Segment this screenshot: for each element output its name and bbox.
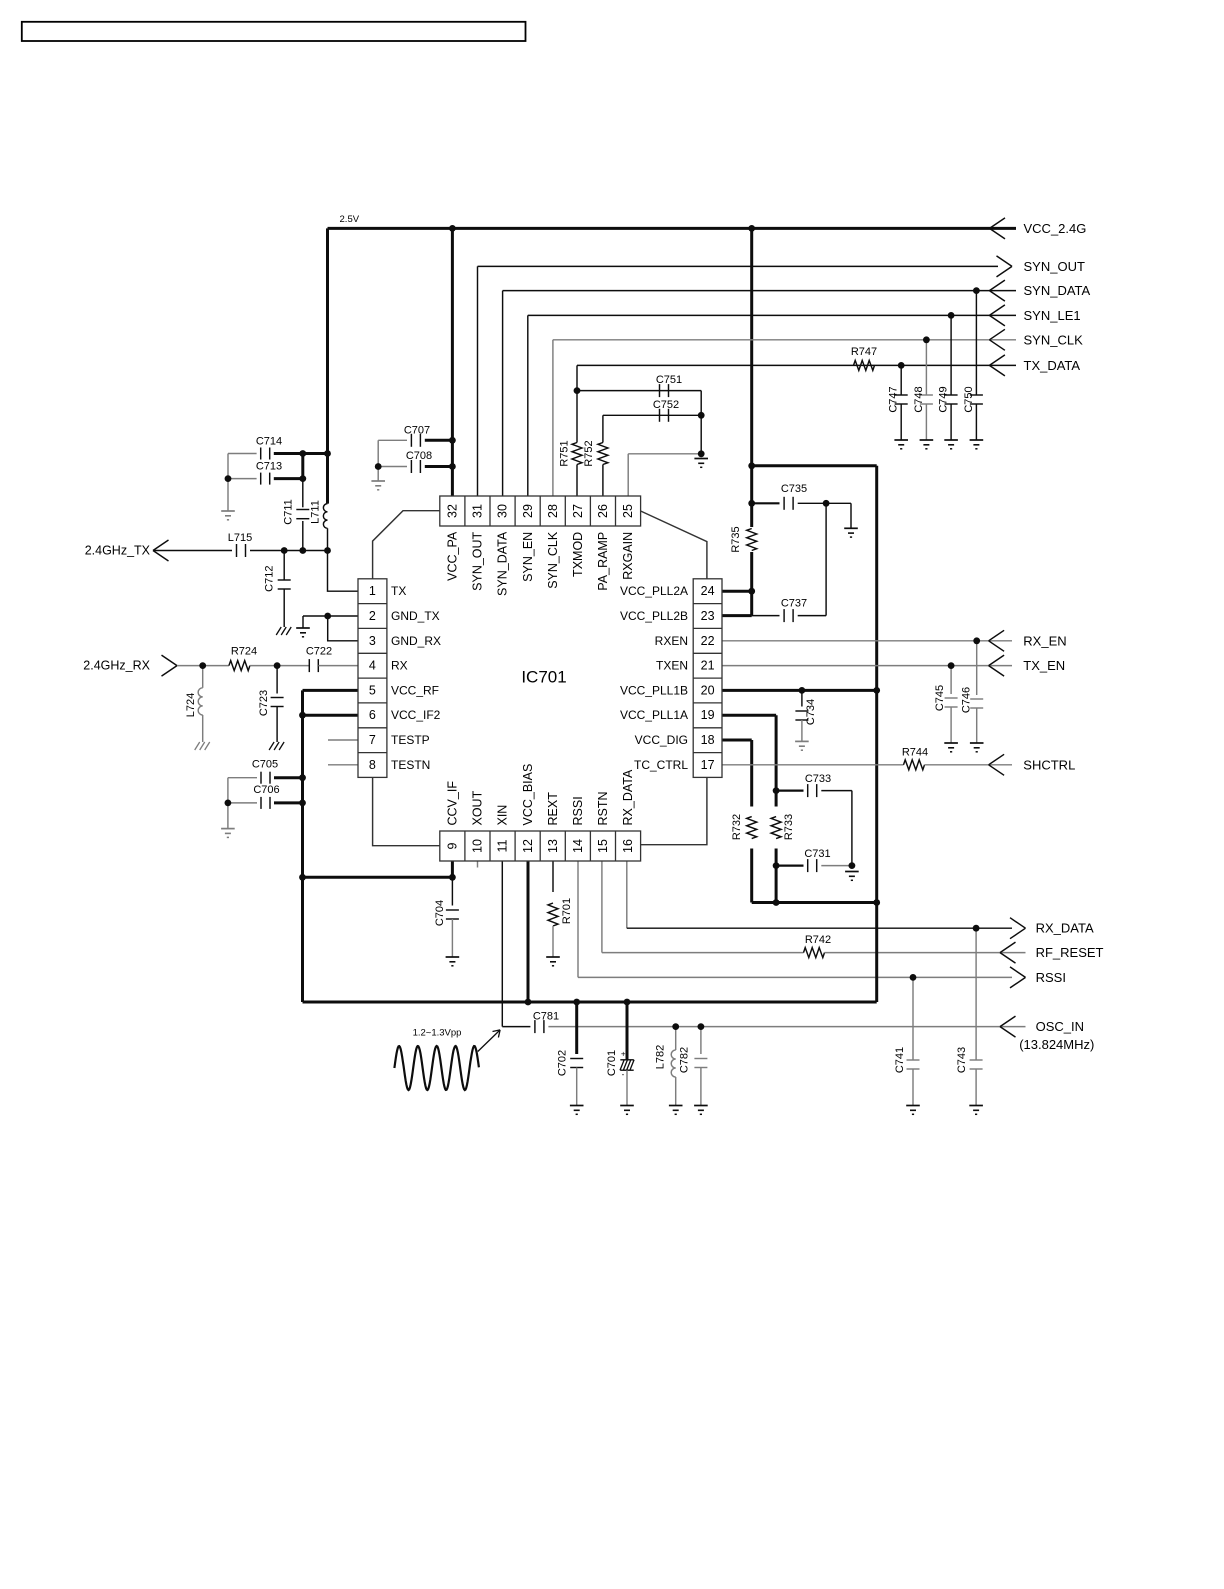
svg-text:9: 9 xyxy=(445,842,459,849)
svg-text:VCC_2.4G: VCC_2.4G xyxy=(1024,221,1087,236)
svg-text:RSSI: RSSI xyxy=(571,796,585,825)
svg-text:C708: C708 xyxy=(406,450,432,462)
svg-text:R747: R747 xyxy=(851,346,877,358)
svg-text:1.2~1.3Vpp: 1.2~1.3Vpp xyxy=(413,1028,462,1039)
svg-text:C723: C723 xyxy=(258,690,270,716)
svg-text:GND_RX: GND_RX xyxy=(391,634,441,648)
svg-text:TX: TX xyxy=(391,584,406,598)
svg-text:18: 18 xyxy=(701,733,715,747)
svg-text:RX: RX xyxy=(391,659,408,673)
svg-text:R751: R751 xyxy=(558,440,570,466)
svg-text:RX_DATA: RX_DATA xyxy=(621,769,635,825)
svg-text:R752: R752 xyxy=(583,440,595,466)
svg-text:VCC_DIG: VCC_DIG xyxy=(635,733,688,747)
svg-text:(13.824MHz): (13.824MHz) xyxy=(1019,1037,1094,1052)
svg-text:8: 8 xyxy=(369,758,376,772)
svg-text:TX_EN: TX_EN xyxy=(1023,658,1065,673)
svg-text:SYN_DATA: SYN_DATA xyxy=(496,531,510,596)
svg-text:RSSI: RSSI xyxy=(1036,970,1066,985)
svg-text:30: 30 xyxy=(496,504,510,518)
svg-text:L715: L715 xyxy=(228,532,252,544)
svg-text:16: 16 xyxy=(621,839,635,853)
svg-text:VCC_PLL1A: VCC_PLL1A xyxy=(620,708,688,722)
svg-text:CCV_IF: CCV_IF xyxy=(445,781,459,826)
svg-text:L782: L782 xyxy=(654,1045,666,1069)
svg-text:SHCTRL: SHCTRL xyxy=(1023,757,1075,772)
svg-text:TC_CTRL: TC_CTRL xyxy=(634,758,688,772)
svg-text:XIN: XIN xyxy=(496,805,510,826)
svg-text:15: 15 xyxy=(596,839,610,853)
svg-text:C752: C752 xyxy=(653,399,679,411)
svg-text:C750: C750 xyxy=(963,386,975,412)
svg-text:C713: C713 xyxy=(256,461,282,473)
svg-text:SYN_CLK: SYN_CLK xyxy=(1024,332,1084,347)
svg-text:VCC_IF2: VCC_IF2 xyxy=(391,708,441,722)
svg-text:VCC_RF: VCC_RF xyxy=(391,683,439,697)
svg-text:VCC_PA: VCC_PA xyxy=(445,531,459,581)
svg-text:PA_RAMP: PA_RAMP xyxy=(596,532,610,591)
svg-text:4: 4 xyxy=(369,659,376,673)
svg-text:C701: C701 xyxy=(606,1050,618,1076)
svg-text:2.4GHz_TX: 2.4GHz_TX xyxy=(85,544,151,558)
svg-text:29: 29 xyxy=(521,504,535,518)
svg-text:23: 23 xyxy=(701,609,715,623)
svg-text:6: 6 xyxy=(369,708,376,722)
svg-text:28: 28 xyxy=(546,504,560,518)
svg-text:22: 22 xyxy=(701,634,715,648)
svg-text:GND_TX: GND_TX xyxy=(391,609,440,623)
svg-text:C737: C737 xyxy=(781,598,807,610)
svg-text:RX_EN: RX_EN xyxy=(1023,633,1066,648)
svg-text:C735: C735 xyxy=(781,483,807,495)
svg-text:-: - xyxy=(622,1070,625,1079)
svg-text:C705: C705 xyxy=(252,759,278,771)
svg-text:SYN_OUT: SYN_OUT xyxy=(471,531,485,590)
svg-text:C707: C707 xyxy=(404,424,430,436)
svg-text:C749: C749 xyxy=(938,386,950,412)
svg-text:RSTN: RSTN xyxy=(596,791,610,825)
svg-text:SYN_CLK: SYN_CLK xyxy=(546,531,560,589)
svg-text:14: 14 xyxy=(571,839,585,853)
svg-text:17: 17 xyxy=(701,758,715,772)
svg-text:REXT: REXT xyxy=(546,792,560,826)
svg-text:TXMOD: TXMOD xyxy=(571,532,585,577)
svg-text:+: + xyxy=(621,1050,626,1059)
svg-text:31: 31 xyxy=(471,504,485,518)
svg-text:R724: R724 xyxy=(231,646,257,658)
svg-text:12: 12 xyxy=(521,839,535,853)
svg-text:5: 5 xyxy=(369,683,376,697)
svg-text:R742: R742 xyxy=(805,934,831,946)
svg-text:2: 2 xyxy=(369,609,376,623)
svg-text:C706: C706 xyxy=(253,784,279,796)
svg-text:C745: C745 xyxy=(934,685,946,711)
svg-text:C711: C711 xyxy=(283,499,295,524)
svg-text:SYN_DATA: SYN_DATA xyxy=(1024,283,1091,298)
svg-text:7: 7 xyxy=(369,733,376,747)
svg-text:VCC_BIAS: VCC_BIAS xyxy=(521,764,535,826)
svg-text:VCC_PLL2B: VCC_PLL2B xyxy=(620,609,688,623)
svg-text:OSC_IN: OSC_IN xyxy=(1036,1019,1084,1034)
svg-text:C733: C733 xyxy=(805,773,831,785)
svg-text:RXEN: RXEN xyxy=(655,634,688,648)
svg-text:C731: C731 xyxy=(804,848,830,860)
svg-text:24: 24 xyxy=(701,584,715,598)
svg-text:11: 11 xyxy=(496,839,510,852)
svg-text:SYN_LE1: SYN_LE1 xyxy=(1024,308,1081,323)
svg-text:19: 19 xyxy=(701,708,715,722)
svg-text:TESTP: TESTP xyxy=(391,733,430,747)
svg-text:TX_DATA: TX_DATA xyxy=(1024,358,1081,373)
svg-text:RX_DATA: RX_DATA xyxy=(1036,921,1094,936)
svg-text:C714: C714 xyxy=(256,436,282,448)
svg-text:C722: C722 xyxy=(306,646,332,658)
svg-text:C748: C748 xyxy=(913,386,925,412)
svg-text:RF_RESET: RF_RESET xyxy=(1036,945,1104,960)
svg-text:L711: L711 xyxy=(310,500,322,524)
svg-text:27: 27 xyxy=(571,504,585,518)
svg-text:VCC_PLL1B: VCC_PLL1B xyxy=(620,683,688,697)
svg-text:SYN_EN: SYN_EN xyxy=(521,532,535,582)
svg-text:C743: C743 xyxy=(956,1047,968,1073)
svg-text:13: 13 xyxy=(546,839,560,853)
svg-text:10: 10 xyxy=(471,839,485,853)
svg-text:XOUT: XOUT xyxy=(471,790,485,825)
svg-text:TESTN: TESTN xyxy=(391,758,430,772)
svg-text:L724: L724 xyxy=(185,693,197,717)
svg-text:2.4GHz_RX: 2.4GHz_RX xyxy=(83,659,150,673)
svg-text:C747: C747 xyxy=(888,386,900,412)
svg-text:R732: R732 xyxy=(731,814,743,840)
svg-text:20: 20 xyxy=(701,683,715,697)
svg-text:C751: C751 xyxy=(656,374,682,386)
svg-text:C781: C781 xyxy=(533,1011,559,1023)
svg-text:21: 21 xyxy=(701,659,715,673)
svg-text:25: 25 xyxy=(621,504,635,518)
svg-text:VCC_PLL2A: VCC_PLL2A xyxy=(620,584,688,598)
svg-text:R733: R733 xyxy=(783,814,795,840)
svg-text:C746: C746 xyxy=(960,687,972,713)
svg-text:R735: R735 xyxy=(730,526,742,552)
svg-text:R744: R744 xyxy=(902,747,928,759)
svg-text:32: 32 xyxy=(445,504,459,518)
svg-text:IC701: IC701 xyxy=(521,668,566,687)
svg-text:26: 26 xyxy=(596,504,610,518)
svg-text:C734: C734 xyxy=(805,699,817,725)
svg-text:C702: C702 xyxy=(556,1050,568,1076)
svg-text:C712: C712 xyxy=(264,566,276,592)
svg-text:2.5V: 2.5V xyxy=(340,214,360,225)
svg-text:RXGAIN: RXGAIN xyxy=(621,532,635,580)
svg-text:SYN_OUT: SYN_OUT xyxy=(1024,259,1085,274)
svg-text:1: 1 xyxy=(369,584,376,598)
svg-text:R701: R701 xyxy=(561,898,573,924)
svg-text:TXEN: TXEN xyxy=(656,659,688,673)
svg-text:C741: C741 xyxy=(894,1047,906,1073)
svg-text:C704: C704 xyxy=(434,900,446,926)
svg-text:C782: C782 xyxy=(679,1047,691,1073)
svg-text:3: 3 xyxy=(369,634,376,648)
